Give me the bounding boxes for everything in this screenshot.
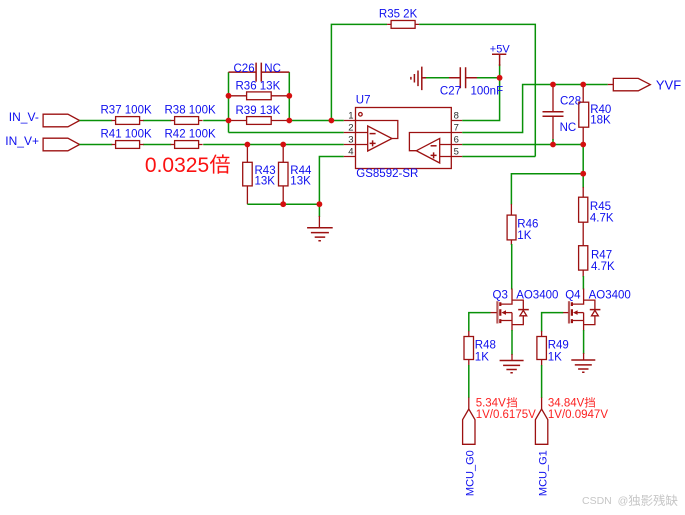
capacitor C26 [229,63,290,82]
capacitor C28 [543,85,582,145]
svg-text:U7: U7 [356,94,371,106]
wire Q4 source [583,330,585,360]
transistor Q3 [491,289,559,332]
svg-text:NC: NC [264,63,281,75]
wire R46 to Q3 drain [511,244,513,290]
resistor R45 [579,174,614,246]
svg-text:+5V: +5V [490,43,511,55]
wire node A verticals [229,72,290,132]
resistor R49 [537,331,569,366]
wire R49 to MCU_G1 [541,365,543,410]
junction C28 bottom [550,142,556,148]
wire R43 R44 bottom to ground node [247,204,319,217]
svg-text:R36 13K: R36 13K [236,80,281,92]
svg-text:18K: 18K [590,115,611,127]
svg-text:1K: 1K [475,352,489,364]
ground earth C27 [411,67,426,91]
resistor R42 [165,129,216,149]
junction R40 top [580,82,586,88]
wire pin7 to output node [462,85,608,133]
svg-text:5.34V: 5.34V [476,398,506,410]
resistor R35 [379,9,419,29]
wire divider node to R46 [511,174,583,205]
wire pin4 to ground node [319,157,343,205]
wire IN_V+ row [79,144,344,146]
wire node A to pin1 [289,120,344,122]
junction pin1 feedback [329,118,335,124]
watermark CSDN [582,494,678,507]
svg-text:Q4: Q4 [565,289,581,301]
resistor R39 [229,105,290,124]
svg-text:100nF: 100nF [471,85,504,97]
op-amp U7 [344,94,462,180]
ground Q4 [571,360,595,372]
wire R35 right to pin5 [419,24,535,156]
resistor R46 [507,204,538,245]
resistor R36 [229,80,290,99]
svg-text:5: 5 [454,147,459,158]
junction C28 top [550,82,556,88]
resistor R40 [579,85,612,145]
svg-text:C28: C28 [560,95,581,107]
resistor R43 [243,145,276,205]
svg-text:1K: 1K [548,352,562,364]
junction ground node [317,201,323,207]
svg-text:YVF: YVF [656,77,681,92]
svg-text:R42 100K: R42 100K [165,129,216,141]
red text range 34.84V [548,397,608,421]
svg-text:4.7K: 4.7K [590,213,614,225]
svg-text:4: 4 [348,147,353,158]
svg-text:R35 2K: R35 2K [379,9,418,21]
wire pin8 to +5V node [462,64,499,121]
svg-text:1: 1 [348,111,353,122]
svg-text:R45: R45 [590,201,611,213]
wire node A to pin2 [229,132,344,134]
svg-text:13K: 13K [255,176,276,188]
wire R40 bottom to divider node [582,145,584,174]
junction R43 top [245,142,251,148]
port MCU_G0 [463,409,477,496]
resistor R41 [101,129,152,149]
junction +5V C27 [497,75,503,81]
svg-text:R37 100K: R37 100K [101,105,152,117]
port IN_V- [9,110,80,127]
wire R47 to Q4 drain [582,276,584,290]
svg-text:1V/0.6175V: 1V/0.6175V [476,409,536,421]
svg-text:8: 8 [454,111,459,122]
svg-text:MCU_G1: MCU_G1 [538,450,550,496]
junction divider node [580,171,586,177]
junction R40 bottom [580,142,586,148]
ground Q3 [500,361,524,373]
wire feedback R35 left vertical [331,24,387,120]
svg-text:Q3: Q3 [493,289,508,301]
port IN_V+ [5,134,79,151]
svg-text:AO3400: AO3400 [589,289,631,301]
power +5V [490,43,511,66]
wire Q3 source [511,330,513,360]
resistor R44 [279,145,313,205]
resistor R37 [101,105,152,125]
junction R44 top [280,142,286,148]
svg-text:IN_V+: IN_V+ [5,134,39,148]
wire IN_V- row [79,120,229,122]
red text 0.0325x gain [145,154,230,177]
resistor R48 [464,331,496,366]
junction R44 bottom [280,201,286,207]
svg-text:C27: C27 [440,85,461,97]
wire R48 to MCU_G0 [468,365,470,410]
svg-text:R38 100K: R38 100K [165,105,216,117]
wire Q4 gate [542,313,564,332]
transistor Q4 [563,289,631,332]
svg-text:R46: R46 [517,218,538,230]
port MCU_G1 [535,409,549,496]
svg-text:R48: R48 [475,340,496,352]
svg-text:C26: C26 [234,63,255,75]
svg-text:34.84V: 34.84V [548,398,585,410]
red text range 5.34V [476,397,536,421]
junction node A [226,118,232,124]
resistor R38 [165,105,216,125]
svg-text:6: 6 [454,135,459,146]
port YVF [608,77,681,92]
svg-text:AO3400: AO3400 [516,289,558,301]
resistor R47 [579,246,615,277]
svg-text:NC: NC [560,122,577,134]
svg-text:13K: 13K [290,176,311,188]
svg-text:1V/0.0947V: 1V/0.0947V [548,409,608,421]
junction R36 right [286,93,292,99]
junction R36 left [226,93,232,99]
capacitor C27 [424,67,503,97]
svg-text:GS8592-SR: GS8592-SR [356,168,418,180]
svg-text:R49: R49 [548,340,569,352]
svg-text:1K: 1K [517,230,531,242]
svg-text:MCU_G0: MCU_G0 [465,450,477,496]
svg-text:R41 100K: R41 100K [101,129,152,141]
svg-text:7: 7 [454,123,459,134]
wire pin6 row to R40 [462,144,583,146]
svg-text:4.7K: 4.7K [591,261,615,273]
wire Q3 gate [469,313,491,332]
svg-text:2: 2 [348,123,353,134]
svg-text:IN_V-: IN_V- [9,110,39,124]
ground main [307,216,333,241]
svg-text:R39 13K: R39 13K [236,105,281,117]
svg-text:CSDN @: CSDN @ [582,495,628,507]
svg-text:3: 3 [348,135,353,146]
svg-text:R47: R47 [591,250,612,262]
junction node B [286,118,292,124]
svg-text:0.0325: 0.0325 [145,154,209,177]
